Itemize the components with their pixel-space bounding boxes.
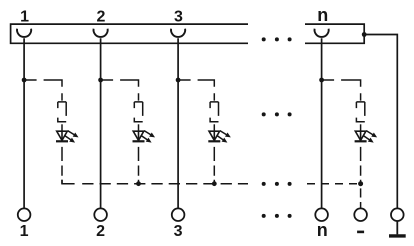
node junction channel n — [319, 78, 324, 83]
svg-text:3: 3 — [174, 8, 183, 25]
terminal circle 1 (bottom) — [18, 208, 31, 221]
ground symbol — [389, 221, 406, 236]
wire resistor to LED channel 2 (dashed) — [138, 124, 140, 131]
LED channel n — [355, 129, 379, 145]
clamp point terminal 2 — [94, 29, 108, 37]
node bottom bus channel 2 — [136, 181, 141, 186]
svg-text:2: 2 — [96, 223, 105, 240]
resistor channel n — [356, 102, 364, 122]
wire bottom bus right segment (dashed) — [305, 183, 361, 185]
ellipsis terminal row — [262, 214, 292, 218]
LED channel 1 — [56, 129, 80, 145]
clamp point terminal 1 — [17, 29, 31, 37]
node junction channel 3 — [176, 78, 181, 83]
wire LED to bottom bus channel 1 with corner (dashed) — [62, 147, 248, 184]
ellipsis bottom bus row — [262, 182, 292, 186]
LED channel 2 — [133, 129, 157, 145]
resistor channel 1 — [58, 102, 66, 122]
clamp point terminal n — [315, 29, 329, 37]
wire LED to bottom bus channel 2 (dashed) — [138, 147, 140, 184]
svg-text:3: 3 — [174, 223, 183, 240]
wire channel 2 vertical — [100, 38, 102, 208]
wire bus bar to ground terminal — [364, 35, 397, 209]
wire LED branch top channel n (dashed) — [322, 80, 361, 101]
node bottom bus channel 3 — [212, 181, 217, 186]
wire minus drop (dashed) — [360, 188, 362, 208]
wire LED to bottom bus channel 3 (dashed) — [213, 147, 215, 184]
wire channel 3 vertical — [177, 38, 179, 208]
wire resistor to LED channel n (dashed) — [360, 124, 362, 131]
bus bar right segment — [305, 24, 364, 43]
LED channel 3 — [208, 129, 232, 145]
terminal circle 2 (bottom) — [94, 208, 107, 221]
terminal circle n (bottom) — [315, 208, 328, 221]
svg-text:2: 2 — [96, 8, 105, 25]
resistor channel 3 — [210, 102, 218, 122]
svg-text:n: n — [317, 220, 328, 240]
wire LED branch top channel 2 (dashed) — [101, 80, 139, 101]
clamp point terminal 3 — [171, 29, 185, 37]
terminal circle minus (bottom) — [354, 208, 367, 221]
label terminal minus (bottom) — [357, 231, 364, 234]
resistor channel 2 — [134, 102, 142, 122]
wire LED branch top channel 3 (dashed) — [178, 80, 214, 101]
svg-text:1: 1 — [20, 223, 29, 240]
svg-text:n: n — [317, 5, 328, 25]
node bottom bus channel n — [358, 181, 363, 186]
terminal circle ground (bottom) — [391, 208, 404, 221]
node junction channel 1 — [22, 78, 27, 83]
terminal circle 3 (bottom) — [172, 208, 185, 221]
node bus bar output — [362, 32, 367, 37]
ellipsis top row — [262, 37, 292, 41]
svg-text:1: 1 — [20, 8, 29, 25]
ellipsis middle row — [262, 112, 292, 116]
wire resistor to LED channel 3 (dashed) — [213, 124, 215, 131]
wire channel n vertical — [321, 38, 323, 208]
wire resistor to LED channel 1 (dashed) — [61, 124, 63, 131]
node junction channel 2 — [98, 78, 103, 83]
bus bar left segment — [11, 24, 248, 43]
wire channel 1 vertical — [23, 38, 25, 208]
wire LED branch top channel 1 (dashed) — [24, 80, 62, 101]
wire LED to bottom bus channel n (dashed) — [360, 147, 362, 184]
